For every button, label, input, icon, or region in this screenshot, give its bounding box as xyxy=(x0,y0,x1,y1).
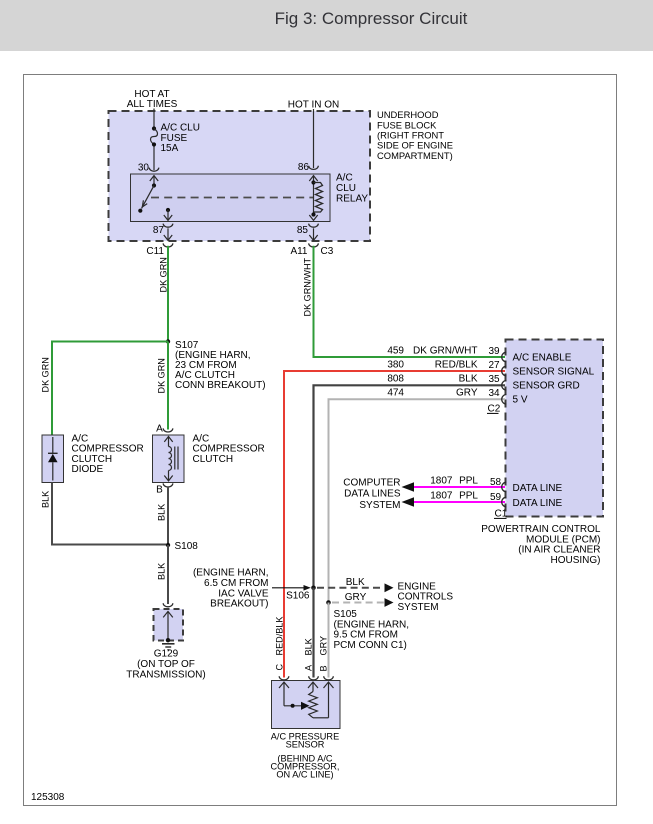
sensor pin A lead xyxy=(308,682,318,692)
clutch pin A arc xyxy=(163,428,173,432)
relay coil xyxy=(309,176,322,221)
svg-text:SENSOR: SENSOR xyxy=(286,739,325,749)
connector C3 arc xyxy=(309,243,319,247)
svg-text:PCM CONN C1): PCM CONN C1) xyxy=(334,640,407,651)
sensor pin C arc xyxy=(279,676,289,680)
svg-text:C3: C3 xyxy=(321,246,334,257)
relay linkage dashed xyxy=(151,197,313,199)
svg-text:1807: 1807 xyxy=(430,476,453,487)
PCM caption xyxy=(481,524,601,566)
svg-text:808: 808 xyxy=(387,374,404,385)
wire BLK S108 to G129 xyxy=(167,545,169,604)
svg-text:BLK: BLK xyxy=(346,577,365,588)
svg-text:B: B xyxy=(319,665,329,671)
fuse A/C CLU 15A xyxy=(151,126,158,146)
connector C2 label xyxy=(487,404,501,415)
svg-text:6.5 CM FROM: 6.5 CM FROM xyxy=(204,578,268,589)
svg-text:GRY: GRY xyxy=(319,636,329,656)
svg-text:9.5 CM FROM: 9.5 CM FROM xyxy=(334,630,398,641)
wire BLK S106 to sensor A xyxy=(312,588,314,678)
svg-text:15A: 15A xyxy=(161,143,179,154)
underhood fuse block caption xyxy=(377,109,453,161)
splice S108 xyxy=(166,543,170,547)
splice S106 xyxy=(311,586,316,591)
PCM pin arcs 39 27 35 34 xyxy=(502,352,507,404)
wire DK GRN/WHT A11 to PCM pin 39 xyxy=(314,246,506,357)
arrowhead BLK engine controls xyxy=(385,583,394,592)
svg-text:DATA LINES: DATA LINES xyxy=(344,488,401,499)
pin 30 terminal arc xyxy=(149,168,159,172)
clutch pin B arc xyxy=(163,483,173,487)
svg-text:CLU: CLU xyxy=(336,183,356,194)
svg-text:Fig 3: Compressor Circuit: Fig 3: Compressor Circuit xyxy=(275,9,468,28)
wire row 34 labels xyxy=(387,388,500,400)
svg-text:GRY: GRY xyxy=(345,592,367,603)
connector C1 label xyxy=(494,509,508,520)
wire GRY dashed S105 to engine controls xyxy=(332,602,384,604)
sensor resistor xyxy=(309,692,318,718)
svg-text:FUSE: FUSE xyxy=(161,133,188,144)
svg-text:HOT IN ON: HOT IN ON xyxy=(288,99,339,110)
sensor caption xyxy=(271,731,340,779)
sensor pin A arc xyxy=(309,676,319,680)
wire feed to fuse xyxy=(153,109,155,129)
relay switch pin 30 arrow xyxy=(150,176,158,181)
splice S105 xyxy=(326,600,331,605)
data line labels xyxy=(430,476,501,504)
svg-text:380: 380 xyxy=(387,360,404,371)
pin 85 terminal arc xyxy=(309,224,319,228)
relay contact 87 lead xyxy=(164,208,172,221)
A/C compressor clutch diode box xyxy=(42,435,64,483)
relay switch blade xyxy=(138,183,156,212)
PCM pin name labels xyxy=(513,353,595,406)
svg-text:C1: C1 xyxy=(495,509,508,520)
svg-text:HOUSING): HOUSING) xyxy=(551,555,601,566)
svg-text:DK GRN: DK GRN xyxy=(41,357,51,392)
svg-text:5 V: 5 V xyxy=(513,395,528,406)
wire GRY PCM 34 to S105 xyxy=(329,399,506,602)
svg-text:A/C: A/C xyxy=(336,173,353,184)
svg-text:A11: A11 xyxy=(290,246,307,257)
svg-text:30: 30 xyxy=(138,163,150,174)
S105 caption xyxy=(334,609,410,651)
svg-text:C: C xyxy=(275,664,285,671)
G129 connector arc xyxy=(163,603,173,607)
wire PPL 59 xyxy=(402,497,506,507)
svg-text:85: 85 xyxy=(297,225,309,236)
wire DK GRN C11 to S107 xyxy=(167,246,169,342)
svg-text:BLK: BLK xyxy=(304,638,314,655)
engine controls caption xyxy=(398,581,454,613)
wire row 35 labels xyxy=(387,374,500,386)
feed label HOT AT ALL TIMES xyxy=(127,89,178,110)
sensor pin C lead xyxy=(279,682,310,710)
PCM data pin arcs 58 59 xyxy=(502,482,507,507)
wire PPL 58 xyxy=(402,482,506,492)
svg-text:DK GRN: DK GRN xyxy=(159,257,169,292)
PCM box xyxy=(506,340,604,517)
svg-text:TRANSMISSION): TRANSMISSION) xyxy=(126,670,205,681)
svg-text:DIODE: DIODE xyxy=(72,464,104,475)
svg-text:COMPUTER: COMPUTER xyxy=(343,478,400,489)
sensor pin B lead xyxy=(313,682,334,718)
svg-text:(ON TOP OF: (ON TOP OF xyxy=(137,659,195,670)
svg-text:C11: C11 xyxy=(146,246,164,257)
arrowhead GRY engine controls xyxy=(385,598,394,607)
svg-text:BLK: BLK xyxy=(459,374,478,385)
wire GRY S105 to sensor B xyxy=(328,603,330,678)
svg-text:(ENGINE HARN,: (ENGINE HARN, xyxy=(193,568,269,579)
svg-text:39: 39 xyxy=(489,346,501,357)
wire DK GRN branch to diode xyxy=(52,342,168,436)
svg-text:A: A xyxy=(304,664,314,671)
svg-text:GRY: GRY xyxy=(456,388,478,399)
svg-text:58: 58 xyxy=(490,477,502,488)
svg-text:59: 59 xyxy=(490,492,502,503)
svg-text:87: 87 xyxy=(153,225,165,236)
svg-text:PPL: PPL xyxy=(459,476,478,487)
svg-text:SYSTEM: SYSTEM xyxy=(398,602,439,613)
clutch coil L xyxy=(164,437,172,481)
PCM data pin name labels xyxy=(513,483,563,509)
G129 ground lead xyxy=(163,611,173,642)
svg-text:86: 86 xyxy=(298,162,310,173)
svg-text:B: B xyxy=(156,485,163,496)
wire hot in on to pin 86 xyxy=(313,109,315,168)
svg-text:ON A/C LINE): ON A/C LINE) xyxy=(276,770,333,780)
svg-text:BLK: BLK xyxy=(157,504,167,521)
svg-text:ALL TIMES: ALL TIMES xyxy=(127,99,178,110)
svg-text:BLK: BLK xyxy=(157,563,167,580)
wire 85 to A11 xyxy=(309,228,317,240)
svg-text:A/C CLU: A/C CLU xyxy=(161,122,200,133)
underhood fuse block box xyxy=(109,111,371,241)
wire fuse to pin 30 xyxy=(153,147,155,171)
wire 87 to C11 xyxy=(164,228,172,240)
svg-text:COMPARTMENT): COMPARTMENT) xyxy=(377,150,453,161)
relay switch stub xyxy=(153,176,155,186)
svg-text:125308: 125308 xyxy=(31,792,65,803)
A/C CLU relay box xyxy=(131,174,331,222)
pin 87 terminal arc xyxy=(163,224,173,228)
svg-text:DATA LINE: DATA LINE xyxy=(513,498,563,509)
title bar xyxy=(0,0,653,51)
svg-text:SENSOR GRD: SENSOR GRD xyxy=(513,381,580,392)
svg-text:CLUTCH: CLUTCH xyxy=(193,454,234,465)
fuse label xyxy=(161,122,200,154)
arrow IAC caption to S106 xyxy=(272,585,311,591)
svg-text:BREAKOUT): BREAKOUT) xyxy=(210,599,268,610)
wire row 39 labels xyxy=(387,346,500,358)
svg-text:(ENGINE HARN,: (ENGINE HARN, xyxy=(334,619,410,630)
svg-text:DATA LINE: DATA LINE xyxy=(513,483,563,494)
svg-text:C2: C2 xyxy=(488,404,501,415)
clutch core bars xyxy=(175,447,178,470)
svg-text:G129: G129 xyxy=(154,649,179,660)
ground symbol xyxy=(162,644,175,650)
svg-text:A/C ENABLE: A/C ENABLE xyxy=(513,353,572,364)
IAC breakout caption xyxy=(193,568,269,610)
wire RED/BLK PCM 27 to sensor C xyxy=(284,371,505,678)
svg-text:RED/BLK: RED/BLK xyxy=(435,360,478,371)
svg-text:IAC VALVE: IAC VALVE xyxy=(218,588,269,599)
svg-text:A: A xyxy=(156,423,163,434)
svg-text:1807: 1807 xyxy=(430,491,453,502)
svg-text:474: 474 xyxy=(387,388,404,399)
G129 box xyxy=(154,609,184,641)
wire BLK dashed S106 to engine controls xyxy=(317,587,384,589)
A/C compressor clutch box xyxy=(153,435,185,483)
svg-text:DK GRN: DK GRN xyxy=(157,358,167,393)
diode D symbol xyxy=(48,437,58,481)
relay caption xyxy=(336,173,368,205)
pin 86 terminal arc xyxy=(309,166,319,170)
svg-text:34: 34 xyxy=(489,388,501,399)
diode caption xyxy=(72,433,144,475)
svg-text:DK GRN/WHT: DK GRN/WHT xyxy=(303,257,313,316)
svg-text:S108: S108 xyxy=(175,541,199,552)
svg-text:S106: S106 xyxy=(286,591,310,602)
clutch caption xyxy=(193,433,265,465)
G129 caption xyxy=(126,649,205,681)
connector C11 arc xyxy=(163,243,173,247)
splice S107 xyxy=(166,339,170,343)
svg-text:RELAY: RELAY xyxy=(336,194,368,205)
wire BLK diode to S108 xyxy=(52,483,166,545)
wire BLK clutch to S108 xyxy=(167,488,169,545)
wire row 27 labels xyxy=(387,360,500,372)
svg-text:RED/BLK: RED/BLK xyxy=(275,617,285,656)
wire BLK PCM 35 to S106 xyxy=(314,385,506,588)
svg-text:BLK: BLK xyxy=(41,491,51,508)
svg-text:CONN BREAKOUT): CONN BREAKOUT) xyxy=(175,380,266,391)
sensor pin B arc xyxy=(324,676,334,680)
wire DK GRN S107 to clutch xyxy=(167,342,169,430)
svg-text:PPL: PPL xyxy=(459,491,478,502)
computer data lines caption xyxy=(343,478,401,511)
A/C pressure sensor box xyxy=(272,681,341,729)
svg-text:SYSTEM: SYSTEM xyxy=(359,500,400,511)
svg-text:35: 35 xyxy=(489,374,501,385)
svg-text:459: 459 xyxy=(387,346,404,357)
svg-text:S105: S105 xyxy=(334,609,358,620)
svg-text:SENSOR SIGNAL: SENSOR SIGNAL xyxy=(513,367,595,378)
S107 caption xyxy=(175,340,266,391)
svg-text:DK GRN/WHT: DK GRN/WHT xyxy=(413,346,477,357)
svg-text:27: 27 xyxy=(489,360,501,371)
